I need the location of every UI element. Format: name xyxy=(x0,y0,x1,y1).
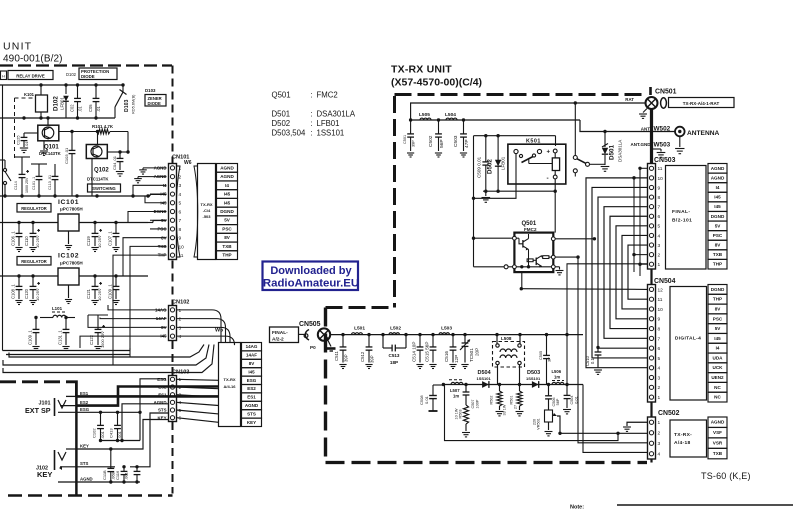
left unit dashed border right edge xyxy=(172,66,174,164)
svg-text:-: - xyxy=(547,175,549,182)
wire vertical x=640 xyxy=(639,168,641,276)
svg-text:20P: 20P xyxy=(475,348,480,356)
capacitor C502 56P xyxy=(438,120,440,134)
capacitor C111 .1 xyxy=(65,318,67,330)
capacitor C113b .001 xyxy=(117,412,119,425)
Q101 emitter ground xyxy=(43,141,45,150)
svg-text:C503: C503 xyxy=(453,135,459,147)
svg-text:9: 9 xyxy=(658,317,661,323)
svg-text::: : xyxy=(311,129,313,138)
svg-text:H: H xyxy=(2,74,5,79)
svg-text:I45: I45 xyxy=(714,195,721,200)
svg-text:.01: .01 xyxy=(96,106,101,112)
wire CN101 I45 pin5 xyxy=(145,196,150,203)
svg-text:TXB: TXB xyxy=(222,244,232,249)
svg-text:THP: THP xyxy=(222,253,231,258)
capacitor C107 .1 xyxy=(115,223,117,234)
svg-text:8V: 8V xyxy=(224,235,231,240)
svg-text:Note:: Note: xyxy=(570,505,584,511)
svg-text:D502: D502 xyxy=(272,119,291,128)
svg-text:I45: I45 xyxy=(714,204,721,209)
svg-text:C120: C120 xyxy=(24,288,29,299)
svg-text:K101: K101 xyxy=(24,92,35,97)
svg-text:D102: D102 xyxy=(66,72,77,77)
svg-text:1: 1 xyxy=(658,262,661,268)
svg-text:L506: L506 xyxy=(552,369,562,374)
svg-text:18P: 18P xyxy=(390,360,398,365)
svg-text:CN502: CN502 xyxy=(658,410,680,417)
svg-text:8: 8 xyxy=(658,195,661,201)
svg-text:THP: THP xyxy=(713,262,722,267)
svg-text:C509 0.01: C509 0.01 xyxy=(477,156,482,178)
svg-text:220: 220 xyxy=(533,419,537,425)
svg-text:10 1W: 10 1W xyxy=(455,408,459,419)
capacitor C508 0.01 xyxy=(433,384,445,386)
svg-text:μPC7805H: μPC7805H xyxy=(60,207,83,212)
svg-text:1SS101: 1SS101 xyxy=(526,376,541,381)
wire CN102 routing left xyxy=(108,305,150,310)
svg-text:TC501: TC501 xyxy=(469,348,474,362)
svg-text:R503: R503 xyxy=(459,409,463,418)
svg-text:9: 9 xyxy=(179,236,182,242)
svg-text:W503: W503 xyxy=(654,142,671,149)
capacitor C122 1000 25V electrolytic xyxy=(97,315,99,329)
svg-text:D503,504: D503,504 xyxy=(272,129,306,138)
cable source box FINAL-A/2-2 xyxy=(270,327,299,343)
wire IC101 in/out xyxy=(0,222,58,224)
svg-text:CN103: CN103 xyxy=(172,370,189,376)
svg-text:AGND: AGND xyxy=(711,166,725,171)
svg-text:FINAL-: FINAL- xyxy=(672,209,690,215)
relay drive label box xyxy=(1,71,7,80)
svg-text:RadioAmateur.EU: RadioAmateur.EU xyxy=(263,278,359,290)
svg-text:TX-RX-A/4-1-RAT: TX-RX-A/4-1-RAT xyxy=(683,101,720,106)
zener diode label box xyxy=(145,95,166,107)
cable destination box TX-RX-A/4-1-RAT xyxy=(669,98,735,108)
svg-text:.001: .001 xyxy=(117,430,122,439)
svg-text:.001: .001 xyxy=(100,430,105,439)
wire relay contact to ground bus xyxy=(474,154,517,199)
svg-text:B/2-101: B/2-101 xyxy=(672,218,692,224)
TX-RX unit dashed border left upper xyxy=(393,96,396,308)
CN102 pin stub wires xyxy=(150,309,167,311)
svg-text:I45: I45 xyxy=(248,369,255,374)
svg-text:12: 12 xyxy=(658,287,664,293)
CN505 plug arc xyxy=(305,330,309,341)
lower unit border corner xyxy=(66,382,76,397)
wire VSF line xyxy=(560,432,648,434)
wire bundle to W5 connector row 2 xyxy=(3,345,209,366)
sheet border bottom right xyxy=(617,504,793,506)
wire AGND row to CN103 xyxy=(122,404,168,441)
capacitor C513 18P parallel xyxy=(382,335,384,348)
wire switch lower stub xyxy=(574,173,576,177)
svg-text:.01: .01 xyxy=(24,141,29,147)
potentiometer VR501 220 xyxy=(545,410,553,422)
svg-text:RAT: RAT xyxy=(625,97,634,102)
wire CN101 DGND pin6 xyxy=(128,212,150,223)
svg-text:C125: C125 xyxy=(16,135,21,145)
svg-text:PSC: PSC xyxy=(713,233,723,238)
svg-text:1m: 1m xyxy=(554,375,560,380)
svg-text:47P: 47P xyxy=(464,139,470,148)
svg-text:NC: NC xyxy=(714,395,721,400)
svg-text:C106 .1: C106 .1 xyxy=(11,231,16,246)
capacitor C114 1000 25V electrolytic xyxy=(21,160,23,174)
wire ES1 bold xyxy=(76,395,218,398)
svg-text:DIGITAL-4: DIGITAL-4 xyxy=(675,336,701,342)
svg-text:ESG: ESG xyxy=(157,377,167,382)
capacitor C117b .001 xyxy=(136,467,138,472)
svg-text:TXB: TXB xyxy=(713,252,723,257)
svg-text:L507: L507 xyxy=(450,388,460,393)
svg-text:1: 1 xyxy=(658,420,661,426)
svg-text:D502: D502 xyxy=(487,159,494,174)
CN502 signal label column xyxy=(708,417,727,427)
wire relay coil bus xyxy=(499,190,555,192)
svg-text:C514 10P: C514 10P xyxy=(412,342,417,362)
svg-text:1m: 1m xyxy=(453,394,459,399)
capacitor C120 10 25V electrolytic xyxy=(32,276,34,286)
svg-text:10 25V: 10 25V xyxy=(35,235,40,248)
svg-text:FMC2: FMC2 xyxy=(317,91,338,100)
svg-text:SWITCHING: SWITCHING xyxy=(92,186,115,191)
capacitor C105 .01 xyxy=(95,85,97,98)
svg-text:56P: 56P xyxy=(556,398,560,405)
W5 destination signal label column xyxy=(242,343,262,351)
CN501 ground xyxy=(643,109,647,113)
svg-text:C108 .1: C108 .1 xyxy=(11,284,16,299)
capacitor C509 0.01 xyxy=(485,136,487,162)
TX-RX unit dashed border step xyxy=(326,306,395,309)
svg-text:C507: C507 xyxy=(471,399,475,408)
capacitor C516 12P xyxy=(452,335,454,347)
IC102 ground pin xyxy=(68,285,70,298)
svg-text:UDA: UDA xyxy=(713,355,724,360)
switching label box xyxy=(88,184,121,192)
svg-text:C501: C501 xyxy=(403,135,407,144)
svg-text:C04 .01: C04 .01 xyxy=(112,155,117,170)
svg-text:100P: 100P xyxy=(476,399,480,408)
capacitor C113 .01 xyxy=(54,164,56,176)
wire horizontal y=135.7 xyxy=(474,135,556,137)
svg-text:6: 6 xyxy=(658,214,661,220)
svg-text:39P: 39P xyxy=(412,140,416,147)
capacitor C515 56P xyxy=(432,335,434,347)
capacitor C512 39P xyxy=(368,335,370,347)
svg-text:C119: C119 xyxy=(86,236,91,246)
svg-text:ANT: ANT xyxy=(641,126,650,131)
transistor Q101 DTC143TK xyxy=(38,125,59,141)
svg-text:9: 9 xyxy=(658,185,661,191)
svg-text::: : xyxy=(311,110,313,119)
svg-text:CN102: CN102 xyxy=(172,300,189,306)
capacitor C125 .01 xyxy=(23,133,25,137)
svg-text:Q501: Q501 xyxy=(272,91,291,100)
Q501 open terminal xyxy=(504,265,508,269)
capacitor C504 0.01 xyxy=(566,385,568,396)
CN101 destination signal label column xyxy=(217,164,238,173)
TX-RX unit dashed border corner at CN501 xyxy=(649,87,652,95)
svg-text:DIODE: DIODE xyxy=(81,74,95,79)
svg-text:DTC114TK: DTC114TK xyxy=(87,177,109,182)
svg-text:5V: 5V xyxy=(715,326,722,331)
trimmer capacitor TC501 20P xyxy=(464,335,466,343)
svg-text:AGND: AGND xyxy=(80,477,93,482)
svg-text:D501: D501 xyxy=(272,110,291,119)
wire CN101 THP pin11 xyxy=(113,255,150,365)
svg-text:L101: L101 xyxy=(52,306,63,311)
svg-text:11: 11 xyxy=(658,166,663,172)
svg-text:AGND: AGND xyxy=(220,174,234,179)
cable bundle W6 arcs xyxy=(176,166,180,257)
svg-text:5V: 5V xyxy=(224,218,231,223)
svg-text:-503: -503 xyxy=(202,214,211,219)
wire vertical node x=473.5 xyxy=(473,136,475,267)
svg-text:VSR: VSR xyxy=(713,441,723,446)
svg-text:STS: STS xyxy=(247,411,256,416)
svg-text:C11B: C11B xyxy=(102,470,107,480)
svg-text:ESG: ESG xyxy=(247,378,257,383)
svg-text::: : xyxy=(311,119,313,128)
svg-text:LFB01: LFB01 xyxy=(501,156,506,170)
wire ground bus J101 caps xyxy=(101,440,141,442)
svg-text:ES2: ES2 xyxy=(80,400,89,405)
wire detector output down xyxy=(583,385,648,453)
svg-text:4: 4 xyxy=(658,366,661,372)
svg-text:VSF: VSF xyxy=(713,430,722,435)
svg-text:C103 .01: C103 .01 xyxy=(64,147,69,164)
svg-text:.01: .01 xyxy=(78,106,83,112)
svg-text:C121: C121 xyxy=(86,288,91,299)
svg-text:TX-RX UNIT: TX-RX UNIT xyxy=(391,64,452,76)
svg-text:0.01: 0.01 xyxy=(424,395,429,404)
wire CN101 TXB pin10 xyxy=(130,246,150,357)
svg-text:C102: C102 xyxy=(92,428,97,438)
capacitor C505 3P xyxy=(546,335,548,356)
svg-text:8V: 8V xyxy=(715,243,722,248)
wire VR501 wiper xyxy=(557,416,560,433)
wire CN101 8V pin9 xyxy=(123,238,150,276)
svg-text:I4: I4 xyxy=(225,183,229,188)
CN502 pin1 ground xyxy=(627,422,648,426)
protection diode label box xyxy=(79,68,117,80)
svg-text:C113 .01: C113 .01 xyxy=(48,175,52,190)
capacitor C118 .001 xyxy=(110,449,112,468)
svg-text:7: 7 xyxy=(179,218,182,224)
svg-text:TX-RX: TX-RX xyxy=(201,202,213,207)
svg-text:1SS101: 1SS101 xyxy=(317,129,345,138)
connector chain verticals xyxy=(650,269,652,285)
wire vertical x=634 xyxy=(633,178,635,272)
svg-text:10 25V: 10 25V xyxy=(35,288,40,301)
svg-text:1000 25V: 1000 25V xyxy=(100,331,105,348)
svg-text:TX-RX: TX-RX xyxy=(224,377,236,382)
capacitor C112 .001 xyxy=(100,412,102,425)
lower unit bold dashed border top xyxy=(0,380,62,383)
svg-text:TS-60 (K,E): TS-60 (K,E) xyxy=(701,471,751,481)
svg-text:C109 .1: C109 .1 xyxy=(108,284,113,299)
svg-text:CN501: CN501 xyxy=(655,89,677,96)
TX-RX unit dashed border top xyxy=(395,93,647,96)
wire CN102 to W5 bundle curves xyxy=(177,310,222,343)
svg-text:3: 3 xyxy=(179,325,182,331)
svg-text:I45: I45 xyxy=(224,200,231,205)
svg-text:3: 3 xyxy=(658,243,661,249)
svg-text:CN503: CN503 xyxy=(654,157,676,164)
wire CN103 pins to W5 block xyxy=(177,378,219,381)
capacitor C221 10 25V electrolytic xyxy=(94,276,96,286)
svg-text:8V: 8V xyxy=(249,361,255,366)
svg-text:6: 6 xyxy=(179,209,182,215)
svg-text:+: + xyxy=(547,150,551,156)
svg-text:P0: P0 xyxy=(310,345,316,350)
wire antenna line xyxy=(580,120,675,132)
capacitor C119 10 25V electrolytic xyxy=(94,223,96,234)
svg-text:DSA301LA: DSA301LA xyxy=(618,140,623,162)
CN505 shell ground xyxy=(328,340,332,347)
svg-text:8: 8 xyxy=(179,227,182,233)
svg-text:L505: L505 xyxy=(419,112,430,118)
svg-text:R501: R501 xyxy=(510,395,514,404)
svg-text:C515 56P: C515 56P xyxy=(425,342,430,362)
resistor R502 33 1W xyxy=(499,385,501,392)
svg-text:A/4-16: A/4-16 xyxy=(223,384,236,389)
wire KEY row xyxy=(76,448,110,450)
svg-text:THP: THP xyxy=(713,297,722,302)
svg-text:7: 7 xyxy=(658,336,661,342)
svg-text:R502: R502 xyxy=(490,395,494,404)
CN101 pin stub wires xyxy=(150,167,167,169)
capacitor C510 0.1 xyxy=(597,347,599,352)
svg-text:RD5.6M(B): RD5.6M(B) xyxy=(131,94,136,114)
svg-text:VR501: VR501 xyxy=(537,418,541,430)
wire CN101 AGND pin1 xyxy=(143,167,150,169)
svg-text:10: 10 xyxy=(658,176,664,182)
coax feed bold vertical xyxy=(650,109,653,164)
svg-text:L503: L503 xyxy=(441,326,452,332)
svg-text:7: 7 xyxy=(658,205,661,211)
inductor L507 1m xyxy=(449,379,463,381)
svg-text:A/4-18: A/4-18 xyxy=(674,440,690,446)
regulator IC102 xyxy=(58,268,79,285)
svg-text:KEY: KEY xyxy=(80,444,89,449)
svg-text:μPC7805H: μPC7805H xyxy=(60,261,83,266)
svg-text:Q101: Q101 xyxy=(44,145,59,151)
svg-text:.001: .001 xyxy=(124,471,129,480)
wire RAT line xyxy=(411,103,646,120)
svg-text:39P: 39P xyxy=(369,355,374,363)
svg-text:3: 3 xyxy=(179,183,182,189)
svg-text:10: 10 xyxy=(179,244,185,250)
svg-text:490-001(B/2): 490-001(B/2) xyxy=(3,54,63,65)
wire bus y=118 xyxy=(0,117,115,119)
resistor R501 27 xyxy=(519,385,521,392)
svg-text:ES1: ES1 xyxy=(80,391,89,396)
svg-text:D103: D103 xyxy=(145,88,156,93)
svg-text:ANT.GND: ANT.GND xyxy=(631,142,652,147)
wire RF line y=120 xyxy=(411,119,580,121)
svg-text:14AG: 14AG xyxy=(246,344,258,349)
svg-text:PSC: PSC xyxy=(222,226,232,231)
capacitor C501 39P xyxy=(410,120,412,134)
svg-text:ESG: ESG xyxy=(80,407,90,412)
wire relay coil to Q501 xyxy=(554,179,556,233)
regulator label box IC102 xyxy=(17,257,51,266)
wire LPF main line xyxy=(330,334,583,336)
svg-text:DSA301LA: DSA301LA xyxy=(317,110,356,119)
svg-text:4: 4 xyxy=(658,233,661,239)
wire brackets CN503 to CN504 xyxy=(586,178,648,368)
svg-text:8V: 8V xyxy=(715,306,722,311)
svg-text:C131 .1: C131 .1 xyxy=(58,330,63,345)
svg-text:0.01: 0.01 xyxy=(575,396,579,403)
svg-text:-C/4: -C/4 xyxy=(203,208,211,213)
capacitor C101 .1 xyxy=(38,164,40,176)
svg-text:C505: C505 xyxy=(539,351,543,360)
svg-text:4: 4 xyxy=(179,192,182,198)
svg-text:LFB01: LFB01 xyxy=(317,119,340,128)
cable box FINAL-B/2-101 xyxy=(666,166,707,270)
svg-text:UEN2: UEN2 xyxy=(711,375,724,380)
switch S101 xyxy=(3,168,6,171)
svg-text:I45: I45 xyxy=(714,336,721,341)
svg-text:5: 5 xyxy=(658,356,661,362)
Q501 ground xyxy=(555,266,559,268)
capacitor C104 .01 xyxy=(119,152,121,158)
svg-text:C516: C516 xyxy=(444,351,449,362)
svg-text:C02: C02 xyxy=(70,104,75,112)
svg-text:4: 4 xyxy=(658,452,661,458)
svg-text:1SS101: 1SS101 xyxy=(477,376,492,381)
capacitor C503 47P xyxy=(463,120,465,134)
transistor Q102 DTC114TK xyxy=(86,145,107,159)
lower unit dashed border bottom xyxy=(8,494,173,497)
svg-text:R101 4.7K: R101 4.7K xyxy=(92,124,114,129)
svg-text:AGND: AGND xyxy=(245,403,259,408)
svg-text:5V: 5V xyxy=(715,223,722,228)
wire Q101 base left xyxy=(24,132,38,134)
TR switch xyxy=(573,156,577,160)
TX-RX unit dashed border left lower xyxy=(324,308,327,463)
svg-text:11: 11 xyxy=(658,297,663,303)
cable destination box TX-RX -C/4 -503 xyxy=(198,164,216,260)
cable destination box TX-RX A/4-16 xyxy=(219,343,241,427)
svg-text:27: 27 xyxy=(514,405,518,409)
svg-text:C512: C512 xyxy=(360,351,365,362)
wire ground return bus xyxy=(445,385,619,441)
svg-text:2: 2 xyxy=(179,317,182,323)
svg-text:10 25V: 10 25V xyxy=(97,288,102,301)
svg-text:39P: 39P xyxy=(343,354,348,362)
svg-text:I4: I4 xyxy=(716,346,720,351)
capacitor C110 10 25V electrolytic xyxy=(32,223,34,234)
Q501 bottom pin wire xyxy=(521,272,523,289)
regulator IC101 xyxy=(58,214,79,231)
left unit inner frame lines xyxy=(2,85,4,351)
capacitor C514 10P xyxy=(419,335,421,347)
svg-text:L508: L508 xyxy=(501,336,512,341)
svg-text:I4: I4 xyxy=(716,185,720,190)
zener diode D501 DSA301LA xyxy=(604,132,606,148)
svg-text:A/2-2: A/2-2 xyxy=(272,337,284,343)
svg-text:AGND: AGND xyxy=(220,165,234,170)
capacitor C128 .1 xyxy=(18,276,20,286)
svg-text:STS: STS xyxy=(80,461,88,466)
wire THP to CN503 pin1 xyxy=(567,264,648,385)
svg-text:RELAY DRIVE: RELAY DRIVE xyxy=(16,73,45,78)
wire ES2 bold xyxy=(76,387,218,406)
